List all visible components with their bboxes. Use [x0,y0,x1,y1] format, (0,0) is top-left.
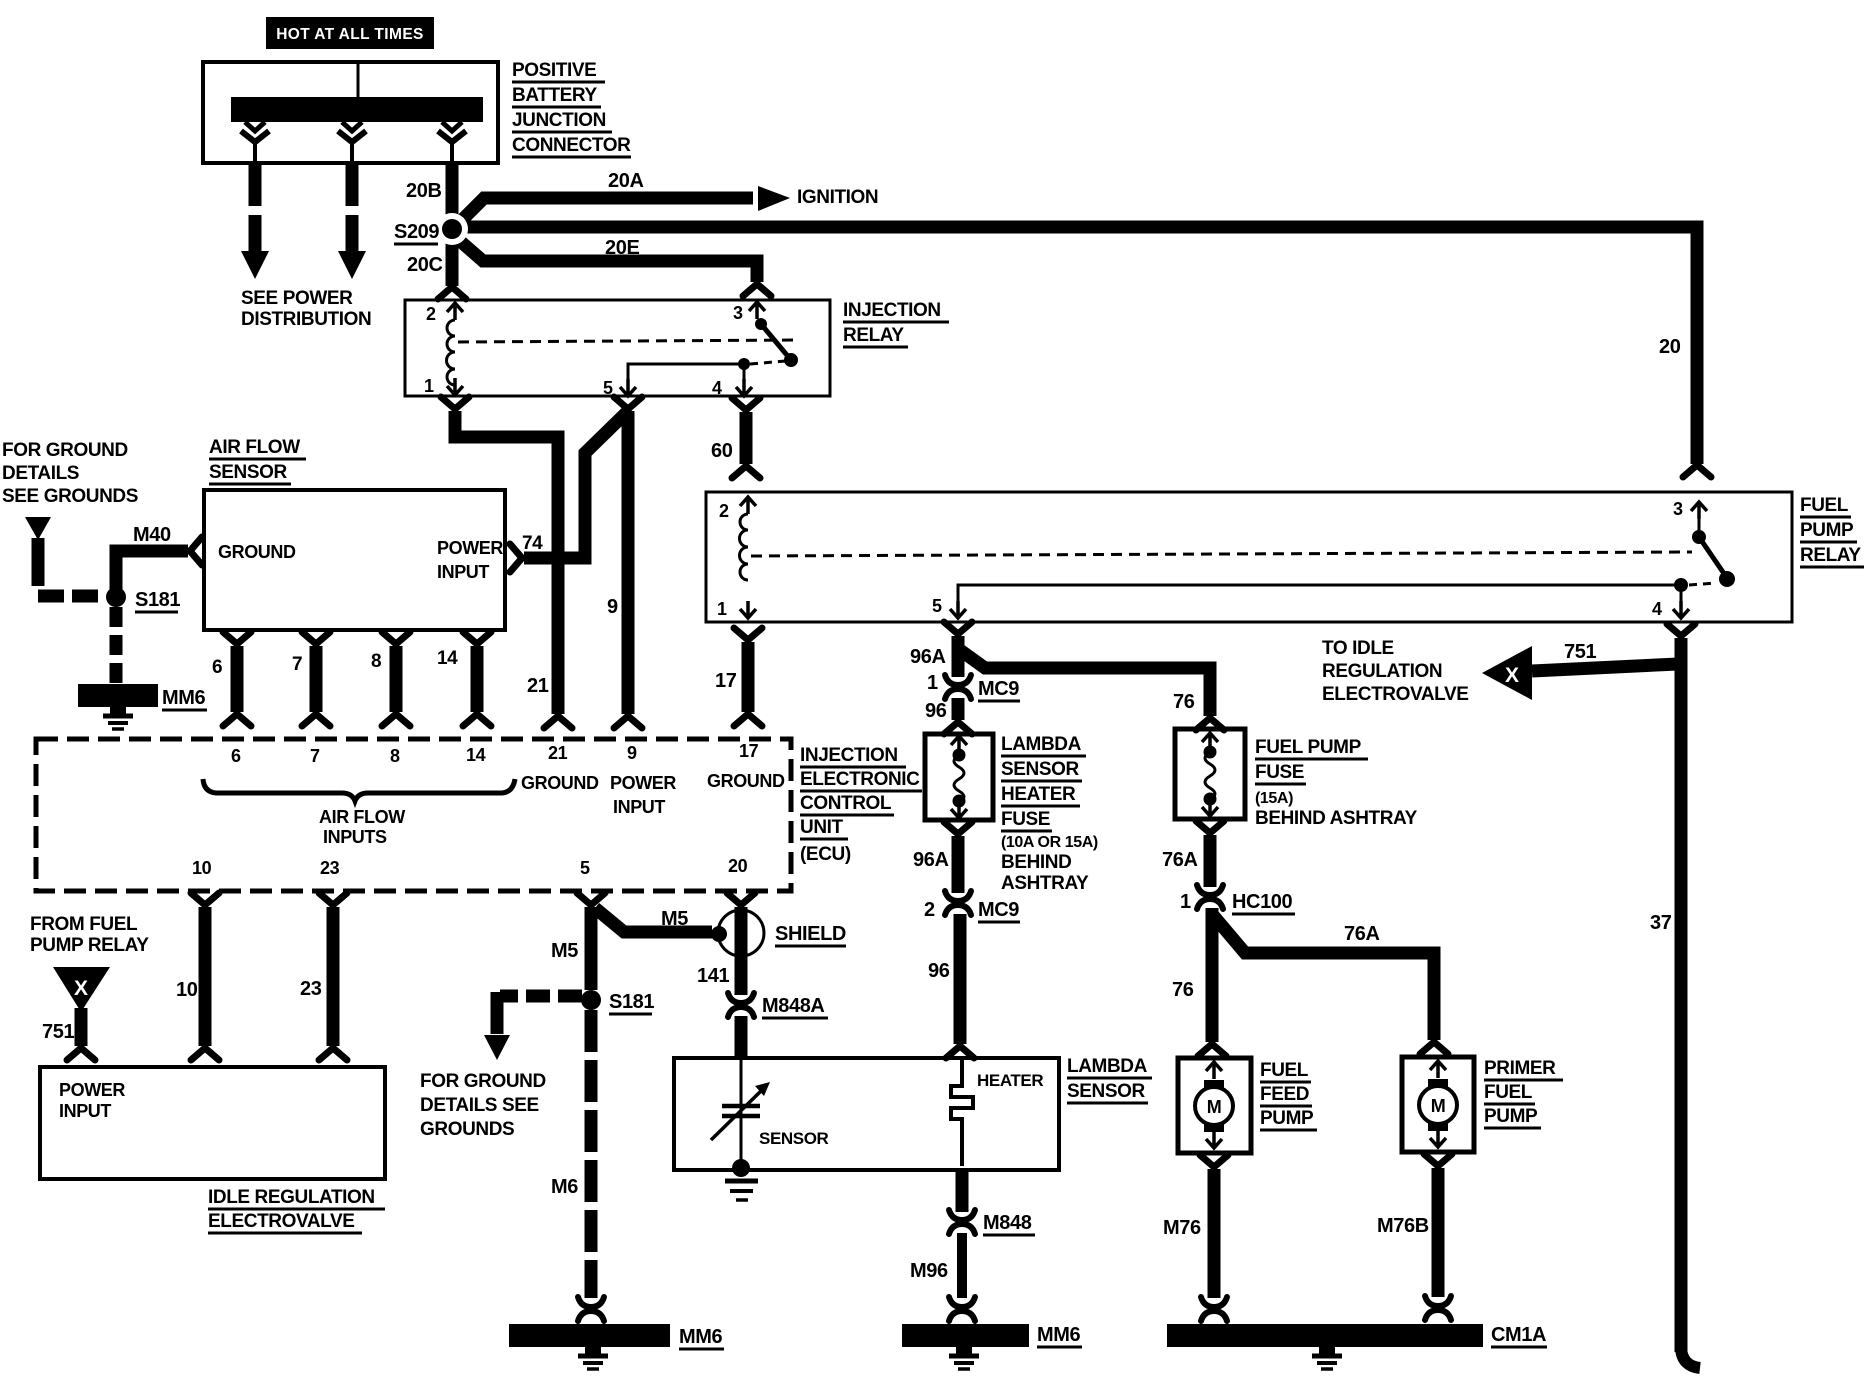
label INJECTION RELAY [843,300,949,347]
label M848 lower [983,1212,1035,1235]
label S181 [609,991,654,1014]
svg-text:FUSE: FUSE [1255,762,1304,783]
node S181 left [106,587,126,607]
label POWER INPUT inside air flow sensor [437,538,503,582]
wire M76 fuel feed pump to CM1A [1200,1155,1228,1298]
svg-text:INJECTION: INJECTION [800,745,898,766]
svg-text:23: 23 [320,858,340,878]
lambda sensor heater fuse box [925,734,993,820]
injection relay pin 4 [712,364,752,398]
svg-text:14: 14 [437,648,458,669]
wire to power distribution 2 [338,163,366,279]
svg-text:MM6: MM6 [162,687,206,709]
lambda sensor box [674,1058,1059,1170]
svg-text:GROUND: GROUND [707,771,785,791]
label FROM FUEL PUMP RELAY [30,914,149,956]
fuel pump fuse box [1175,729,1245,819]
svg-text:PRIMER: PRIMER [1484,1058,1556,1079]
wire from ground triangle [32,538,45,586]
injection relay K1 box [405,300,830,396]
svg-text:S181: S181 [609,991,654,1013]
svg-text:10: 10 [176,979,198,1001]
fuel pump relay K2 box [706,492,1792,622]
positive battery junction connector box [203,62,498,163]
injection relay switch pivot dot [755,318,767,330]
svg-text:CONTROL: CONTROL [800,793,892,814]
svg-text:SENSOR: SENSOR [209,462,288,483]
wire 37 from fuel pump relay pin 4 down [1667,624,1700,1368]
svg-text:6: 6 [231,746,241,766]
svg-text:6: 6 [212,657,222,678]
svg-text:20: 20 [1659,336,1681,358]
connector at MM6 right bar [949,1297,975,1321]
label MM6 center [679,1326,724,1349]
svg-text:PUMP: PUMP [1484,1106,1538,1127]
label TO IDLE REGULATION ELECTROVALVE [1322,638,1469,705]
svg-text:23: 23 [300,978,322,1000]
svg-text:MC9: MC9 [978,678,1019,700]
label PRIMER FUEL PUMP [1484,1058,1563,1128]
ground symbol under lambda sensor [725,1181,758,1200]
svg-text:M76: M76 [1163,1217,1201,1239]
svg-text:751: 751 [1564,641,1596,663]
svg-text:RELAY: RELAY [843,325,904,346]
label AIR FLOW INPUTS [319,807,405,847]
dashed wire from S181 to left ground triangle [500,990,582,1003]
label MC9 lower [978,899,1020,922]
shield circle [718,910,764,956]
svg-text:96A: 96A [913,849,949,871]
svg-text:(15A): (15A) [1255,790,1293,807]
fuel pump relay pin 1 [717,599,756,619]
wire 751 from vertical wire to arrow [1532,664,1678,671]
connector at CM1A bar left [1201,1297,1227,1321]
connector MC9 upper [945,675,971,699]
svg-text:SENSOR: SENSOR [1067,1081,1146,1102]
wire M96 [957,1233,967,1298]
wire 20 from S209 to fuel pump relay pin 3 [452,227,1697,464]
ignition arrowhead [758,186,790,211]
svg-text:INPUT: INPUT [437,562,489,582]
svg-text:M5: M5 [661,908,688,930]
svg-text:21: 21 [527,675,549,697]
label S181 left [135,589,180,612]
svg-text:S181: S181 [135,589,180,611]
wire 23 ECU to idle regulation electrovalve [319,893,347,1060]
svg-text:96A: 96A [910,646,946,668]
wire to power distribution 1 [241,163,269,279]
label POSITIVE BATTERY JUNCTION CONNECTOR [512,60,631,157]
fuel pump relay blade end dot [1719,571,1735,587]
wire 76A branch to primer fuel pump [1212,914,1434,1040]
svg-text:5: 5 [932,596,942,616]
svg-text:17: 17 [715,670,737,692]
ground symbol under MM6 right [949,1347,979,1369]
svg-text:37: 37 [1650,912,1672,934]
wire M5 branch to shield [595,908,712,932]
svg-text:M: M [1207,1097,1222,1117]
label HC100 [1232,891,1295,914]
svg-text:60: 60 [711,440,733,462]
wire 20E to injection relay pin 3 [452,234,757,282]
injection relay pin 2 [426,303,463,324]
lambda sensor variable element bars [722,1106,760,1116]
svg-text:7: 7 [292,654,302,675]
M5 branch dot at shield [711,926,727,942]
connector fork at fuel pump relay pin 3 [1683,465,1711,477]
injection relay switch blade [761,324,791,360]
ground bar MM6 left [78,684,158,707]
svg-text:FUEL PUMP: FUEL PUMP [1255,737,1362,758]
label INJECTION ELECTRONIC CONTROL UNIT (ECU) [800,745,922,865]
svg-text:7: 7 [310,746,320,766]
junction box connector 2 [338,122,366,161]
lambda sensor variable arrow [711,1082,770,1140]
fuel pump fuse element [1202,733,1218,816]
svg-text:CONNECTOR: CONNECTOR [512,135,631,156]
injection relay blade end dot [784,353,798,367]
connector at MM6 bar center [578,1297,604,1321]
svg-text:DISTRIBUTION: DISTRIBUTION [241,309,371,330]
label S209 [394,221,439,244]
wire 96A below lambda fuse [944,822,972,893]
svg-text:9: 9 [607,596,618,618]
svg-text:LAMBDA: LAMBDA [1001,734,1082,755]
svg-text:IDLE REGULATION: IDLE REGULATION [208,1187,375,1208]
svg-text:MM6: MM6 [1037,1324,1081,1346]
injection relay coil [447,320,456,385]
svg-text:1: 1 [424,376,434,396]
svg-text:ELECTRONIC: ELECTRONIC [800,769,920,790]
wire 17 fuel pump relay pin 1 to ECU pin 17 [734,628,762,726]
wire 20B from junction box to node S209 and relay pin 2 [446,163,459,286]
wire 20A to ignition [452,198,753,230]
svg-text:X: X [74,977,88,1000]
svg-text:FUEL: FUEL [1260,1060,1309,1081]
label CM1A [1491,1324,1547,1347]
wire 10 ECU to idle regulation electrovalve [191,893,219,1060]
svg-text:76: 76 [1173,691,1195,713]
svg-text:IGNITION: IGNITION [797,187,878,208]
fuel pump relay pin 2 [719,497,756,521]
label MM6 right [1037,1324,1082,1347]
svg-text:GROUND: GROUND [218,542,296,562]
label FUEL PUMP FUSE [1255,737,1368,784]
connector fork at fuel pump fuse [1196,718,1224,730]
svg-text:HOT AT ALL TIMES: HOT AT ALL TIMES [276,26,424,43]
svg-text:M6: M6 [551,1176,578,1198]
injection relay pin 3 [733,302,765,323]
svg-text:20B: 20B [406,180,442,202]
connector fork at injection relay pin 3 [743,284,771,296]
svg-text:HC100: HC100 [1232,891,1293,913]
primer fuel pump box [1402,1057,1474,1152]
svg-text:M848A: M848A [762,995,824,1017]
svg-text:FROM FUEL: FROM FUEL [30,914,138,935]
svg-text:TO IDLE: TO IDLE [1322,638,1394,659]
junction box divider [357,64,360,97]
svg-text:INPUTS: INPUTS [323,827,387,847]
wire 76 branch to fuel pump fuse [960,650,1210,716]
svg-text:76A: 76A [1162,849,1198,871]
svg-text:1: 1 [927,672,938,694]
svg-text:M40: M40 [133,524,171,546]
ECU air flow inputs brace [203,779,515,801]
svg-text:MC9: MC9 [978,899,1019,921]
svg-text:BEHIND: BEHIND [1001,852,1071,873]
svg-text:PUMP: PUMP [1260,1108,1314,1129]
svg-text:(ECU): (ECU) [800,844,851,865]
svg-text:AIR FLOW: AIR FLOW [319,807,405,827]
fuel pump relay pin 4 junction dot [1674,578,1688,592]
fuel pump relay pin 4 [1652,585,1689,619]
svg-text:RELAY: RELAY [1800,545,1861,566]
svg-text:5: 5 [580,858,590,878]
svg-text:INPUT: INPUT [613,797,665,817]
svg-text:MM6: MM6 [679,1326,723,1348]
label FOR GROUND DETAILS SEE GROUNDS [2,440,138,507]
injection relay pin 1 [424,376,463,396]
wire 96 into lambda fuse [944,698,972,734]
label MC9 upper [978,678,1020,701]
svg-text:20A: 20A [608,170,644,192]
svg-text:20C: 20C [407,254,443,276]
svg-text:ELECTROVALVE: ELECTROVALVE [208,1211,355,1232]
wire 76A below fuel pump fuse [1196,821,1224,887]
svg-text:4: 4 [712,378,722,398]
svg-text:PUMP RELAY: PUMP RELAY [30,935,149,956]
label IDLE REGULATION ELECTROVALVE [208,1187,385,1233]
connector MC9 lower [945,891,971,915]
wire 6 air flow sensor to ECU [223,632,251,726]
svg-text:AIR FLOW: AIR FLOW [209,437,300,458]
wire 751 into electrovalve [67,1008,95,1060]
svg-text:76A: 76A [1344,923,1380,945]
connector fork at primer pump [1420,1042,1448,1054]
svg-text:74: 74 [522,533,543,554]
svg-text:GROUND: GROUND [521,773,599,793]
label FOR GROUND DETAILS SEE GROUNDS bottom [420,1071,546,1140]
connector at CM1A bar right [1425,1296,1451,1320]
svg-text:SHIELD: SHIELD [775,923,846,945]
lambda heater lead and element [951,1060,973,1166]
svg-text:14: 14 [466,745,486,765]
wire 9 and 74 from injection relay pin 5 [510,397,642,728]
svg-text:21: 21 [548,743,568,763]
svg-text:1: 1 [1180,891,1191,913]
wire 76 to fuel feed pump [1198,908,1226,1056]
svg-text:17: 17 [739,741,759,761]
svg-text:SEE POWER: SEE POWER [241,288,353,309]
svg-text:REGULATION: REGULATION [1322,661,1442,682]
svg-text:76: 76 [1172,979,1194,1001]
air flow sensor box [204,490,505,630]
fuel pump relay pin 5 [932,585,1681,618]
wire 60 from injection relay pin 4 to fuel pump relay pin 2 [732,398,760,478]
svg-text:141: 141 [697,965,729,987]
label LAMBDA SENSOR HEATER FUSE [1001,734,1086,831]
svg-text:SENSOR: SENSOR [759,1129,829,1148]
svg-text:M848: M848 [983,1212,1032,1234]
svg-text:HEATER: HEATER [977,1071,1043,1090]
svg-text:FEED: FEED [1260,1084,1309,1105]
svg-text:3: 3 [1673,499,1683,519]
svg-text:FUSE: FUSE [1001,809,1050,830]
label SEE POWER DISTRIBUTION [241,288,371,330]
svg-text:8: 8 [371,651,381,672]
label M848A [762,995,828,1018]
wire M40 ground wire to air flow sensor [116,537,202,597]
ground bar MM6 center [509,1324,670,1347]
label FUEL FEED PUMP [1260,1060,1317,1130]
svg-text:4: 4 [1652,599,1662,619]
svg-text:DETAILS SEE: DETAILS SEE [420,1095,539,1116]
wire 8 air flow sensor to ECU [382,632,410,726]
dashed wire to S181 [38,590,106,603]
svg-text:2: 2 [719,501,729,521]
svg-text:BATTERY: BATTERY [512,85,598,106]
junction box connector 1 [241,122,269,161]
fuel pump relay pin 3 [1673,499,1707,519]
label HOT AT ALL TIMES [266,17,434,49]
ground symbol under MM6 left [103,707,133,729]
wire M5 ECU pin 5 to S181 [577,893,605,990]
svg-text:2: 2 [924,899,935,921]
lambda sensor element lead [740,1060,743,1162]
svg-text:POWER: POWER [59,1080,125,1100]
svg-text:M76B: M76B [1377,1215,1429,1237]
svg-text:96: 96 [925,700,947,722]
ECU label POWER INPUT under 9 [610,773,676,817]
svg-text:8: 8 [390,746,400,766]
svg-text:FOR GROUND: FOR GROUND [2,440,128,461]
svg-text:PUMP: PUMP [1800,520,1854,541]
svg-text:ASHTRAY: ASHTRAY [1001,873,1089,894]
label FUEL PUMP RELAY [1800,495,1864,567]
wire 96 below lambda box [956,1170,969,1212]
connector M848 lower [949,1210,975,1234]
svg-text:S209: S209 [394,221,439,243]
svg-text:20E: 20E [605,237,639,259]
from fuel pump relay arrow triangle with X [53,967,110,1012]
svg-text:CM1A: CM1A [1491,1324,1546,1346]
connector fork at injection relay pin 2 [438,287,466,299]
wire 96A from fuel pump relay pin 5 [944,622,972,677]
svg-text:20: 20 [728,856,748,876]
svg-text:POWER: POWER [437,538,503,558]
fuel pump relay dashed blade hint [1689,583,1716,585]
svg-text:10: 10 [192,858,212,878]
wire 21 from injection relay pin 1 to ECU pin 21 [441,397,572,728]
ground reference triangle top left [25,517,51,540]
label POWER INPUT inside electrovalve [59,1080,125,1121]
connector HC100 [1197,885,1223,909]
injection relay dashed blade hint [750,361,786,364]
ground symbol under CM1A [1312,1347,1342,1369]
svg-text:751: 751 [42,1021,74,1043]
svg-text:FUEL: FUEL [1484,1082,1533,1103]
svg-text:1: 1 [717,599,727,619]
fuel pump relay switch blade [1699,537,1727,578]
junction box bus bar [231,97,483,122]
svg-text:LAMBDA: LAMBDA [1067,1056,1148,1077]
svg-text:FOR GROUND: FOR GROUND [420,1071,546,1092]
injection relay pin 4 junction dot [738,358,750,370]
ground bar CM1A [1167,1324,1483,1347]
svg-text:BEHIND ASHTRAY: BEHIND ASHTRAY [1255,808,1418,829]
dashed wire S181 to MM6 ground bar [110,607,123,684]
idle regulation electrovalve box [40,1067,385,1179]
fuel pump relay dashed link [751,552,1692,556]
primer fuel pump motor M2 [1419,1061,1457,1147]
lambda fuse element [951,736,967,818]
label LAMBDA SENSOR [1067,1056,1152,1103]
svg-text:POSITIVE: POSITIVE [512,60,596,81]
wire 7 air flow sensor to ECU [302,632,330,726]
svg-text:INPUT: INPUT [59,1101,111,1121]
svg-text:FUEL: FUEL [1800,495,1849,516]
junction box connector 3 [438,122,466,161]
svg-text:96: 96 [928,960,950,982]
svg-text:DETAILS: DETAILS [2,463,79,484]
svg-text:X: X [1505,664,1519,687]
injection relay pin 5 [603,364,744,398]
wire 20/141 ECU pin 20 to lambda sensor through shield [727,893,755,995]
wire 141 below M848A [735,1016,748,1058]
svg-text:M96: M96 [910,1260,948,1282]
label MM6 left [162,687,207,710]
svg-text:3: 3 [733,303,743,323]
svg-text:(10A OR 15A): (10A OR 15A) [1001,834,1098,851]
svg-text:INJECTION: INJECTION [843,300,941,321]
label BEHIND ASHTRAY [1001,852,1089,894]
ground symbol under MM6 center [578,1347,608,1369]
svg-text:HEATER: HEATER [1001,784,1076,805]
svg-text:SEE GROUNDS: SEE GROUNDS [2,486,138,507]
connector M848A [728,993,754,1017]
svg-text:GROUNDS: GROUNDS [420,1119,514,1140]
svg-text:POWER: POWER [610,773,676,793]
injection relay dashed link [458,340,800,342]
label SHIELD [775,923,846,946]
svg-text:2: 2 [426,304,436,324]
wire M76B primer pump to CM1A [1424,1154,1452,1297]
label AIR FLOW SENSOR [209,437,306,484]
svg-text:ELECTROVALVE: ELECTROVALVE [1322,684,1469,705]
node S209 [436,213,468,245]
svg-text:SENSOR: SENSOR [1001,759,1080,780]
fuel pump relay coil [740,514,749,580]
svg-text:M: M [1431,1096,1446,1116]
ground bar MM6 right [902,1324,1029,1347]
svg-text:JUNCTION: JUNCTION [512,110,606,131]
svg-text:UNIT: UNIT [800,817,844,838]
wire 96 to lambda heater [946,914,974,1058]
svg-text:9: 9 [627,743,637,763]
node S181 under ECU [581,990,601,1010]
fuel feed pump box [1178,1058,1251,1153]
ground triangle below S181 branch [484,1035,510,1060]
fuel pump relay switch pivot dot [1692,519,1706,544]
dashed wire M6 to MM6 ground bar [585,1010,598,1298]
ECU dashed box [36,739,791,891]
to idle regulation electrovalve arrow with X [1482,646,1532,700]
svg-text:M5: M5 [551,940,578,962]
fuel feed pump motor M1 [1195,1062,1233,1148]
lambda sensor ground dot [732,1159,750,1177]
wire 14 air flow sensor to ECU [463,632,491,726]
